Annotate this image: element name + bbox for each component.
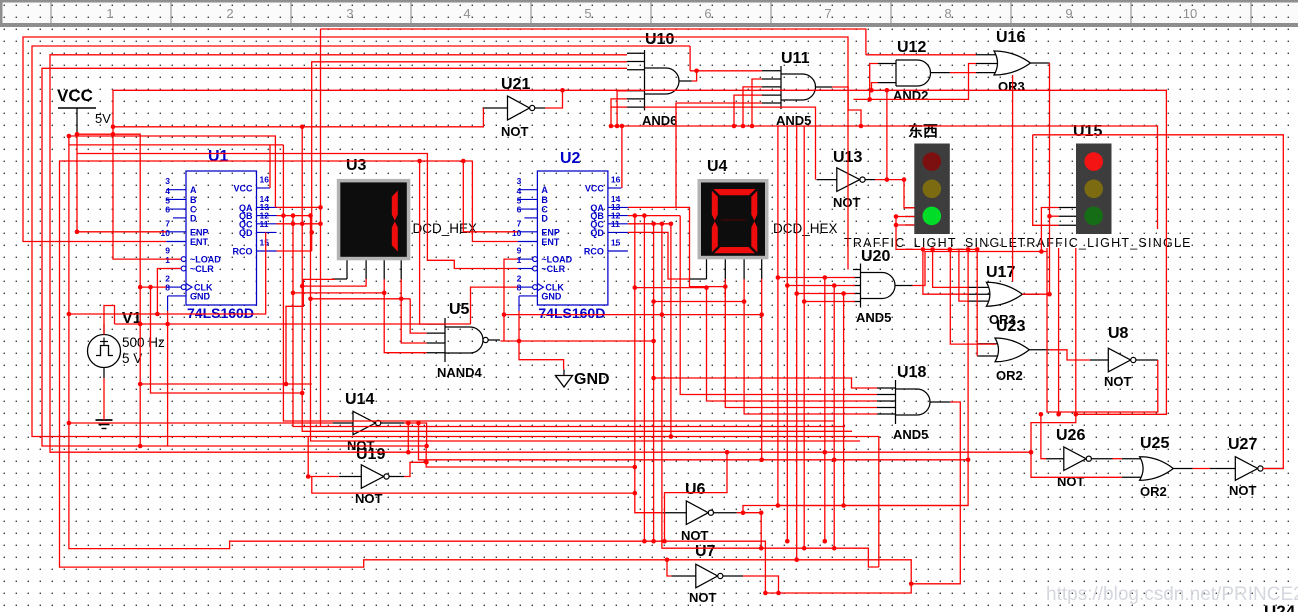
svg-text:16: 16	[260, 175, 270, 185]
wire	[32, 46, 879, 567]
svg-text:OR2: OR2	[996, 368, 1023, 383]
wire	[689, 46, 691, 71]
svg-text:2: 2	[226, 6, 233, 21]
svg-text:OR2: OR2	[1140, 484, 1167, 499]
wire	[283, 145, 834, 421]
wire	[734, 95, 762, 126]
svg-text:U19: U19	[356, 446, 385, 463]
wire	[1022, 293, 1049, 295]
clock source V1	[88, 310, 166, 378]
traffic light (east-west)	[844, 122, 1017, 250]
svg-text:9: 9	[1065, 6, 1072, 21]
7-segment display U4 DCD_HEX	[698, 158, 838, 279]
wire	[786, 126, 788, 541]
svg-text:VCC: VCC	[57, 86, 93, 105]
svg-text:7: 7	[824, 6, 831, 21]
wire	[404, 462, 426, 476]
wire	[950, 72, 976, 74]
svg-text:3: 3	[346, 6, 353, 21]
wire	[832, 87, 861, 126]
wire	[911, 402, 960, 584]
wire	[1041, 414, 1046, 458]
svg-text:4: 4	[165, 186, 170, 196]
wire	[923, 249, 968, 294]
wire	[635, 287, 707, 289]
svg-text:DCD_HEX: DCD_HEX	[413, 221, 478, 236]
wire	[286, 383, 312, 385]
wire	[384, 279, 426, 353]
wire	[778, 277, 855, 279]
wire	[1058, 248, 1060, 414]
gate U6 NOT	[663, 481, 737, 543]
svg-text:QD: QD	[239, 228, 253, 238]
wire	[1050, 215, 1059, 217]
wire	[519, 311, 564, 370]
wire	[308, 437, 339, 477]
wire	[913, 252, 1158, 413]
wire	[843, 294, 845, 506]
wire	[680, 216, 877, 395]
svg-text:U5: U5	[449, 301, 470, 318]
junction dot	[138, 382, 143, 387]
wire	[654, 301, 745, 303]
svg-text:U3: U3	[346, 157, 367, 174]
svg-text:U12: U12	[897, 39, 926, 56]
wire	[69, 269, 181, 315]
wire	[611, 106, 627, 108]
wire	[744, 302, 877, 415]
wire	[628, 223, 671, 225]
svg-text:RCO: RCO	[233, 247, 253, 257]
svg-text:D: D	[190, 213, 197, 223]
svg-text:NOT: NOT	[833, 195, 861, 210]
wire	[628, 232, 690, 279]
wire	[628, 207, 725, 286]
wire	[653, 224, 655, 541]
wire	[796, 126, 798, 560]
black wire	[690, 278, 707, 280]
svg-text:U17: U17	[986, 264, 1015, 281]
wire	[743, 576, 779, 593]
svg-text:https://blog.csdn.net/PRINCE23: https://blog.csdn.net/PRINCE2327	[1046, 584, 1298, 605]
wire	[420, 161, 427, 324]
wire	[886, 90, 888, 179]
wire	[628, 215, 680, 217]
wire	[635, 216, 663, 513]
junction dot	[148, 285, 153, 290]
wire	[804, 301, 855, 303]
svg-text:TRAFFIC_LIGHT_SINGLE: TRAFFIC_LIGHT_SINGLE	[1018, 236, 1191, 250]
wire	[60, 161, 912, 593]
wire	[803, 126, 805, 548]
wire	[545, 90, 563, 108]
gate U10 AND6	[627, 31, 692, 128]
svg-text:NOT: NOT	[689, 590, 717, 605]
wire	[797, 293, 855, 295]
wire	[404, 423, 426, 446]
junction dot	[399, 297, 404, 302]
black wire	[332, 278, 347, 280]
wire	[277, 215, 311, 217]
wire	[293, 292, 384, 294]
svg-text:东西: 东西	[908, 122, 938, 140]
wire	[662, 224, 761, 548]
gate U25 OR2	[1122, 435, 1236, 499]
gate U20 AND5	[853, 248, 913, 325]
svg-text:GND: GND	[190, 291, 211, 301]
svg-text:B: B	[190, 195, 197, 205]
wire	[69, 136, 276, 207]
junction dot	[138, 322, 143, 327]
svg-text:U4: U4	[707, 158, 728, 175]
wire	[401, 279, 426, 343]
gate U17 OR3	[968, 264, 1040, 327]
svg-text:U27: U27	[1228, 436, 1257, 453]
wire	[611, 126, 1158, 229]
wire	[752, 79, 762, 126]
gate U27 NOT	[1228, 436, 1283, 498]
gate U21 NOT	[483, 76, 546, 139]
junction dots	[776, 275, 781, 280]
svg-text:U23: U23	[996, 318, 1025, 335]
wire	[302, 127, 852, 432]
wire	[50, 55, 1031, 452]
gate U14 NOT	[333, 391, 405, 453]
wire	[407, 423, 409, 452]
svg-text:4: 4	[463, 6, 470, 21]
wire	[870, 64, 878, 100]
wire	[77, 134, 166, 232]
wire	[1033, 135, 1284, 469]
gate U23 OR2	[977, 318, 1049, 383]
wire	[670, 224, 672, 437]
wire	[115, 323, 471, 325]
svg-text:1: 1	[106, 6, 113, 21]
wire	[676, 103, 762, 207]
wire	[410, 299, 426, 333]
junction dots	[75, 132, 80, 137]
wire	[277, 206, 321, 208]
7-segment display U3 DCD_HEX	[337, 157, 477, 279]
wire	[167, 311, 169, 446]
svg-text:AND5: AND5	[893, 427, 928, 442]
wire	[1049, 350, 1090, 360]
wire	[302, 108, 483, 127]
svg-text:DCD_HEX: DCD_HEX	[773, 221, 838, 236]
svg-text:~CLR: ~CLR	[190, 264, 214, 274]
wire	[896, 224, 914, 226]
svg-text:6: 6	[165, 204, 170, 214]
wire	[311, 216, 861, 441]
svg-text:VCC: VCC	[233, 184, 253, 194]
wire	[1049, 63, 1051, 294]
ruler bar	[0, 0, 1298, 27]
gate U11 AND5	[762, 50, 832, 128]
wire	[277, 223, 321, 225]
wire	[665, 452, 728, 541]
wire	[950, 249, 996, 344]
gate U16 OR3	[976, 29, 1050, 94]
wire	[621, 126, 623, 188]
junction dot	[1056, 412, 1061, 417]
wire	[737, 512, 761, 514]
wire	[1046, 248, 1048, 252]
wire	[69, 422, 333, 424]
wire	[23, 37, 848, 270]
ground under V1	[96, 420, 113, 429]
wire	[312, 62, 627, 251]
ground symbol GND (digital)	[556, 370, 610, 389]
svg-text:NOT: NOT	[1104, 374, 1132, 389]
wire	[896, 217, 977, 250]
wire	[42, 68, 635, 467]
svg-text:U16: U16	[996, 29, 1025, 46]
wire	[933, 249, 968, 287]
svg-text:U14: U14	[345, 391, 374, 408]
wire	[643, 216, 645, 542]
svg-text:6: 6	[704, 6, 711, 21]
svg-text:15: 15	[260, 238, 270, 248]
wire	[69, 136, 766, 593]
svg-text:U24: U24	[1264, 602, 1296, 612]
svg-text:AND5: AND5	[856, 310, 891, 325]
svg-text:1: 1	[165, 255, 170, 265]
wire	[311, 298, 411, 300]
svg-text:10: 10	[161, 228, 171, 238]
gate U5 NAND4	[427, 301, 500, 380]
wire	[824, 278, 826, 542]
wire	[320, 29, 322, 427]
gate U26 NOT	[1046, 427, 1113, 489]
wire	[1031, 248, 1122, 477]
wire	[1033, 135, 1059, 226]
svg-text:U18: U18	[897, 364, 926, 381]
svg-text:500 Hz: 500 Hz	[122, 335, 165, 350]
svg-text:NAND4: NAND4	[437, 365, 483, 380]
svg-text:U7: U7	[695, 543, 716, 560]
wire	[277, 250, 312, 252]
svg-text:7: 7	[165, 218, 170, 228]
wire	[872, 83, 879, 91]
wire	[140, 279, 335, 384]
svg-text:5V: 5V	[95, 111, 111, 126]
wire	[104, 306, 115, 335]
wire	[500, 340, 653, 342]
gate U18 AND5	[877, 364, 950, 442]
wire	[692, 71, 697, 81]
svg-text:U1: U1	[208, 148, 229, 165]
junction dot	[284, 382, 289, 387]
wire	[896, 216, 914, 218]
wire	[617, 91, 627, 126]
svg-text:8: 8	[944, 6, 951, 21]
svg-text:11: 11	[260, 219, 269, 229]
VCC power symbol	[57, 86, 111, 134]
wire	[103, 378, 105, 420]
svg-text:U6: U6	[685, 481, 706, 498]
svg-text:U2: U2	[560, 150, 581, 167]
wire	[69, 144, 284, 146]
wire	[471, 287, 518, 324]
wire	[725, 287, 877, 408]
wire	[654, 378, 877, 388]
wire	[778, 126, 968, 506]
junction dot	[517, 339, 522, 344]
wire	[611, 99, 627, 126]
wire	[312, 477, 635, 494]
svg-text:NOT: NOT	[501, 124, 529, 139]
svg-text:U8: U8	[1108, 325, 1129, 342]
wire	[976, 249, 978, 356]
svg-text:U25: U25	[1140, 435, 1169, 452]
wire	[761, 315, 763, 460]
svg-text:U20: U20	[861, 248, 890, 265]
gate U13 NOT	[817, 149, 876, 210]
wire	[959, 249, 968, 301]
wire	[321, 29, 866, 55]
svg-text:OR3: OR3	[998, 79, 1025, 94]
gate U12 AND2	[878, 39, 950, 103]
svg-text:ENP: ENP	[190, 227, 209, 237]
wire	[761, 279, 763, 315]
traffic light U15	[1018, 123, 1191, 250]
wire	[743, 279, 745, 302]
wire	[787, 285, 855, 287]
wire	[690, 70, 762, 72]
wire	[875, 180, 914, 208]
wire	[854, 64, 977, 100]
wire	[77, 154, 518, 269]
svg-text:5: 5	[584, 6, 591, 21]
wire	[113, 90, 1166, 414]
wire	[866, 54, 976, 56]
wire	[151, 287, 303, 393]
wire	[293, 216, 845, 427]
wire	[504, 314, 762, 316]
wire	[1041, 208, 1058, 252]
wire	[504, 259, 518, 341]
svg-text:3: 3	[165, 176, 170, 186]
svg-text:A: A	[190, 185, 197, 195]
wire	[761, 548, 879, 567]
svg-text:NOT: NOT	[1229, 483, 1257, 498]
wire	[707, 288, 878, 401]
wire	[1113, 458, 1122, 460]
svg-text:GND: GND	[574, 371, 610, 388]
wire	[743, 87, 762, 126]
wire	[113, 126, 302, 128]
gate U7 NOT	[671, 543, 743, 605]
svg-text:ENT: ENT	[190, 237, 209, 247]
wire	[1193, 468, 1210, 470]
wire	[157, 232, 265, 314]
junction dot	[300, 391, 305, 396]
wire	[419, 423, 969, 460]
wire	[667, 560, 671, 576]
junction dots	[633, 491, 837, 595]
svg-text:U11: U11	[781, 50, 810, 67]
wire	[140, 286, 166, 288]
junction dot	[823, 275, 828, 280]
wire	[645, 107, 816, 180]
svg-text:74LS160D: 74LS160D	[187, 305, 254, 321]
svg-text:NOT: NOT	[1057, 474, 1085, 489]
wire	[1012, 75, 1014, 281]
wire	[302, 279, 366, 286]
gate U8 NOT	[1090, 325, 1158, 389]
wire	[743, 249, 968, 512]
wire	[833, 286, 835, 549]
wire	[463, 161, 517, 232]
svg-text:5 V: 5 V	[122, 351, 142, 366]
wire	[472, 161, 517, 242]
wire	[724, 279, 726, 297]
svg-text:10: 10	[1183, 6, 1197, 21]
svg-text:U26: U26	[1056, 427, 1085, 444]
wire	[77, 134, 140, 446]
gate U19 NOT	[339, 446, 404, 506]
wire	[269, 145, 271, 188]
